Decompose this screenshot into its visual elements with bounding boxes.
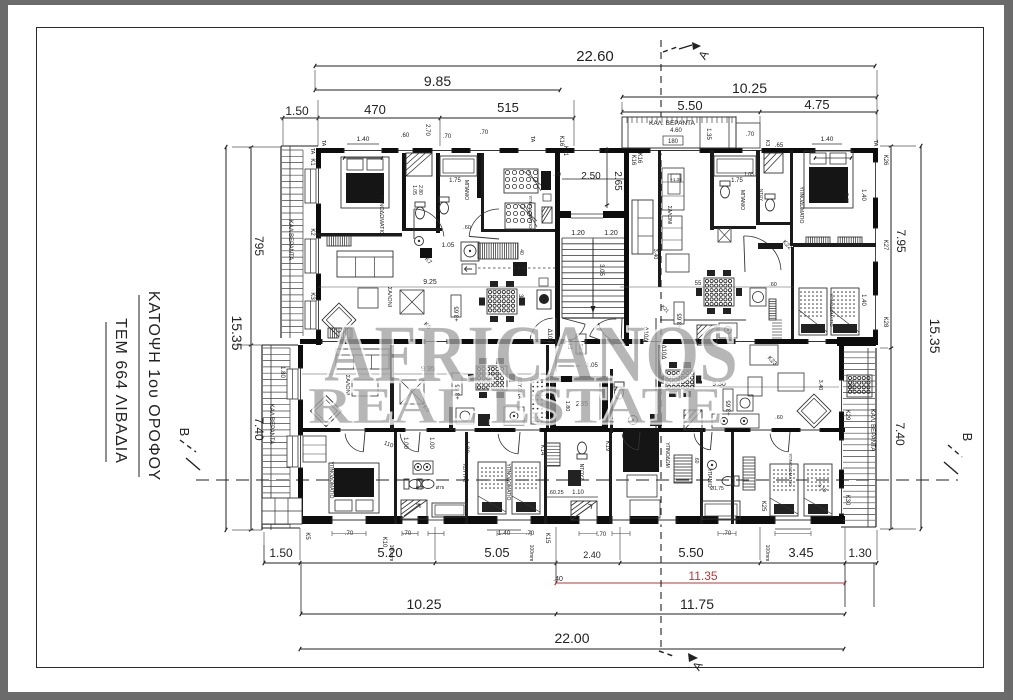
svg-text:7.40: 7.40 <box>893 422 907 446</box>
svg-text:1.05: 1.05 <box>442 242 455 249</box>
svg-text:REAL ESTATE: REAL ESTATE <box>308 378 723 435</box>
svg-text:2.40: 2.40 <box>583 550 601 560</box>
svg-text:4.60: 4.60 <box>670 128 682 134</box>
svg-text:.70: .70 <box>480 130 489 136</box>
svg-text:Κ25: Κ25 <box>760 501 766 512</box>
svg-text:3.45: 3.45 <box>788 545 813 560</box>
svg-text:+3.65: +3.65 <box>727 400 733 416</box>
svg-text:10.25: 10.25 <box>732 80 767 96</box>
svg-text:ΤΑ: ΤΑ <box>529 136 535 143</box>
svg-text:Κ3: Κ3 <box>309 292 315 300</box>
svg-text:ΜΠΑΝΙΟ: ΜΠΑΝΙΟ <box>739 190 745 210</box>
svg-text:ΤΕΜ 664 ΛΙΒΑΔΙΑ: ΤΕΜ 664 ΛΙΒΑΔΙΑ <box>112 318 129 464</box>
svg-text:+1.35: +1.35 <box>670 177 682 182</box>
svg-text:.60: .60 <box>463 225 471 231</box>
svg-text:Κ1: Κ1 <box>309 158 315 166</box>
svg-text:ΥΠΝΟΔΩΜΑΤΙΟ: ΥΠΝΟΔΩΜΑΤΙΟ <box>378 195 384 236</box>
svg-text:Κ28: Κ28 <box>882 317 888 328</box>
svg-text:1.75: 1.75 <box>449 178 461 184</box>
svg-text:22.60: 22.60 <box>576 48 614 65</box>
svg-text:ΤΑ: ΤΑ <box>320 140 326 147</box>
svg-text:.60.25: .60.25 <box>548 490 563 496</box>
svg-text:ΚΑΛ. ΒΕΡΑΝΤΑ: ΚΑΛ. ΒΕΡΑΝΤΑ <box>649 120 696 127</box>
svg-text:ΥΠΝΟΔΩΜΑΤΙΟ: ΥΠΝΟΔΩΜΑΤΙΟ <box>505 464 511 501</box>
svg-text:7.40: 7.40 <box>252 417 266 441</box>
svg-text:Ø75: Ø75 <box>416 485 425 490</box>
svg-text:40: 40 <box>518 249 524 255</box>
svg-text:Ø75: Ø75 <box>436 485 445 490</box>
svg-text:55: 55 <box>695 281 702 287</box>
svg-text:.70: .70 <box>598 532 607 538</box>
svg-text:1.05: 1.05 <box>411 185 417 195</box>
svg-text:515: 515 <box>497 100 519 115</box>
svg-text:2.80: 2.80 <box>417 185 423 195</box>
svg-text:B: B <box>177 428 192 437</box>
svg-text:100mm: 100mm <box>528 545 534 562</box>
svg-text:11.75: 11.75 <box>680 596 714 612</box>
svg-text:5.50: 5.50 <box>677 98 702 113</box>
svg-text:.60: .60 <box>769 282 777 288</box>
svg-text:Κ11: Κ11 <box>562 146 568 157</box>
svg-text:Κ3: Κ3 <box>764 140 770 147</box>
svg-text:.60: .60 <box>775 415 783 421</box>
svg-text:5.50: 5.50 <box>678 545 703 560</box>
svg-text:2.50: 2.50 <box>581 171 601 182</box>
svg-text:15.35: 15.35 <box>927 318 943 353</box>
svg-text:ΥΠΝΟΔΩΜΑΤΙΟ: ΥΠΝΟΔΩΜΑΤΙΟ <box>528 195 533 229</box>
svg-text:10.25: 10.25 <box>406 596 441 612</box>
svg-text:Κ10: Κ10 <box>381 537 387 548</box>
svg-text:ΥΠΑΝΙΟ: ΥΠΑΝΙΟ <box>706 468 712 487</box>
svg-text:.70: .70 <box>746 132 755 138</box>
svg-text:1.35: 1.35 <box>705 128 711 140</box>
svg-text:470: 470 <box>364 102 386 117</box>
svg-text:1.80: 1.80 <box>279 366 285 378</box>
svg-text:100mm: 100mm <box>764 545 770 562</box>
svg-text:ΥΠΝΟΔΩΜ: ΥΠΝΟΔΩΜ <box>664 442 670 468</box>
svg-text:100mm: 100mm <box>388 545 394 562</box>
svg-text:ΚΑΛ ΒΕΡΑΝΤΑ: ΚΑΛ ΒΕΡΑΝΤΑ <box>287 220 293 260</box>
svg-text:1.75: 1.75 <box>731 178 743 184</box>
svg-text:4.75: 4.75 <box>804 97 829 112</box>
svg-text:ΚΑΤΟΨΗ 1ου ΟΡΟΦΟΥ: ΚΑΤΟΨΗ 1ου ΟΡΟΦΟΥ <box>145 291 162 481</box>
svg-text:ΥΠΝΟΔΩΜΑΤΙΟ: ΥΠΝΟΔΩΜΑΤΙΟ <box>798 187 804 224</box>
svg-text:.40: .40 <box>553 576 563 583</box>
svg-text:1.20: 1.20 <box>571 230 585 237</box>
svg-text:.70: .70 <box>345 531 354 537</box>
svg-text:1.05: 1.05 <box>744 172 754 178</box>
svg-text:.60: .60 <box>401 133 410 139</box>
svg-text:Κ15: Κ15 <box>544 533 550 544</box>
svg-text:1.00: 1.00 <box>428 437 434 449</box>
svg-text:2.70: 2.70 <box>424 124 430 136</box>
svg-text:ΜΠΑΝΙΟ: ΜΠΑΝΙΟ <box>463 180 469 200</box>
svg-text:ΥΠΝΟΔΩΜΑΤΙΟ: ΥΠΝΟΔΩΜΑΤΙΟ <box>328 462 334 499</box>
svg-text:.60: .60 <box>693 457 699 464</box>
svg-text:22.00: 22.00 <box>554 630 589 646</box>
svg-text:Κ29: Κ29 <box>844 410 850 421</box>
svg-text:Κ16: Κ16 <box>630 155 636 166</box>
svg-text:180: 180 <box>668 139 679 145</box>
svg-text:1.40: 1.40 <box>821 136 834 143</box>
svg-text:ΤΑ: ΤΑ <box>309 148 315 155</box>
svg-text:1.50: 1.50 <box>269 546 293 560</box>
svg-text:7.95: 7.95 <box>894 229 908 253</box>
svg-text:11.35: 11.35 <box>688 569 717 583</box>
svg-text:1.40: 1.40 <box>357 136 370 143</box>
svg-text:Κ16: Κ16 <box>636 153 642 164</box>
svg-text:3.40: 3.40 <box>817 380 823 391</box>
svg-text:1.20: 1.20 <box>604 230 618 237</box>
svg-text:Ø1.75: Ø1.75 <box>710 486 724 492</box>
svg-text:ΚΑΛ. ΒΕΡΑΝΤΑ: ΚΑΛ. ΒΕΡΑΝΤΑ <box>869 409 875 451</box>
svg-text:Κ14: Κ14 <box>539 445 545 456</box>
svg-text:ΣΑΛΟΝΙ: ΣΑΛΟΝΙ <box>666 206 672 225</box>
svg-text:Κ19: Κ19 <box>604 441 610 452</box>
svg-text:ΛΟΥΤΡΟ: ΛΟΥΤΡΟ <box>462 464 467 483</box>
svg-text:3.05: 3.05 <box>598 264 604 276</box>
svg-text:Κ26: Κ26 <box>882 155 888 166</box>
svg-text:1.40: 1.40 <box>860 294 866 306</box>
svg-text:ΚΑΛ ΒΕΡΑΝΤΑ: ΚΑΛ ΒΕΡΑΝΤΑ <box>268 404 274 444</box>
svg-text:Κ27: Κ27 <box>882 240 888 251</box>
svg-text:ΣΑΛΟΝΙ: ΣΑΛΟΝΙ <box>386 287 392 308</box>
svg-text:Κ16: Κ16 <box>558 136 564 147</box>
svg-text:5.05: 5.05 <box>484 545 509 560</box>
svg-text:.70: .70 <box>403 531 412 537</box>
svg-text:.65: .65 <box>775 143 784 149</box>
svg-text:1.00: 1.00 <box>402 437 408 449</box>
svg-text:1.50: 1.50 <box>285 104 309 118</box>
svg-text:B: B <box>960 433 975 442</box>
svg-text:1.10: 1.10 <box>572 490 584 496</box>
svg-text:.30: .30 <box>553 172 561 178</box>
svg-text:15.35: 15.35 <box>229 315 245 350</box>
svg-text:3.40: 3.40 <box>843 193 849 203</box>
svg-text:2.65: 2.65 <box>612 171 623 191</box>
svg-text:795: 795 <box>252 236 266 256</box>
svg-text:ΥΠΝΟΔΩΜΑΤΙΟ: ΥΠΝΟΔΩΜΑΤΙΟ <box>788 453 793 487</box>
svg-text:.70: .70 <box>723 531 732 537</box>
svg-text:9.85: 9.85 <box>424 73 451 89</box>
svg-text:Κ5: Κ5 <box>304 532 310 540</box>
svg-text:.70: .70 <box>526 531 535 537</box>
svg-text:1.40: 1.40 <box>860 189 866 201</box>
svg-text:3.10: 3.10 <box>517 294 523 306</box>
svg-text:Κ2: Κ2 <box>309 228 315 236</box>
svg-text:Κ30: Κ30 <box>844 495 850 506</box>
svg-text:ΝΤΟΥ: ΝΤΟΥ <box>759 189 764 201</box>
svg-text:1.00: 1.00 <box>463 441 469 453</box>
svg-text:9.25: 9.25 <box>423 279 437 286</box>
svg-text:ΥΠΝΟΔΩΜΑΤΙΟ: ΥΠΝΟΔΩΜΑΤΙΟ <box>829 293 834 327</box>
svg-text:.70: .70 <box>443 134 452 140</box>
svg-text:1.30: 1.30 <box>848 546 872 560</box>
